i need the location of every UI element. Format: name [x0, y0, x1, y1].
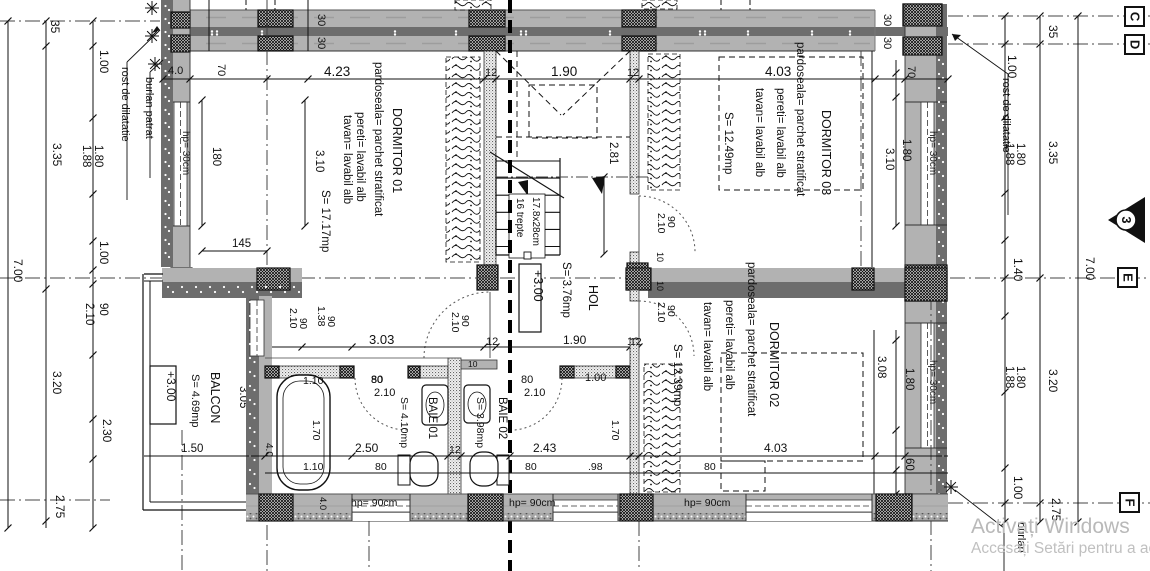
svg-text:10: 10 [468, 359, 478, 369]
svg-text:S= 12.39mp: S= 12.39mp [671, 344, 683, 406]
svg-text:E: E [1121, 273, 1136, 282]
svg-text:1.80: 1.80 [1014, 143, 1026, 165]
svg-text:1.70: 1.70 [310, 420, 322, 441]
columns (crosshatched) in top wall [175, 10, 190, 27]
svg-text:12: 12 [486, 336, 498, 348]
svg-text:80: 80 [375, 461, 387, 473]
svg-text:4.0: 4.0 [317, 497, 328, 510]
svg-text:2.81: 2.81 [607, 142, 619, 164]
column bottom-left of DORM01 [171, 268, 192, 290]
column bottom right [905, 494, 947, 519]
svg-text:hp= 30cm: hp= 30cm [180, 131, 191, 175]
svg-text:1.88: 1.88 [80, 145, 92, 167]
HOL labels [519, 264, 541, 332]
svg-text:3.20: 3.20 [50, 371, 64, 395]
svg-text:hp= 90cm: hp= 90cm [509, 497, 556, 509]
svg-text:16 trepte: 16 trepte [514, 198, 525, 238]
axis D right [948, 43, 1150, 45]
svg-text:2.75: 2.75 [53, 495, 67, 519]
svg-text:Activați Windows: Activați Windows [971, 515, 1130, 538]
svg-text:1.80: 1.80 [900, 139, 912, 161]
svg-text:90: 90 [325, 316, 336, 328]
dim 3.10 left room [304, 100, 306, 226]
svg-text:BAIE 01: BAIE 01 [426, 397, 438, 439]
svg-text:2.30: 2.30 [100, 419, 114, 443]
column top-right lower [903, 37, 942, 55]
svg-text:pardoseala= parchet stratifica: pardoseala= parchet stratificat [745, 262, 757, 417]
svg-text:3: 3 [1119, 217, 1133, 224]
right dim chain 3 7.00 [1077, 16, 1079, 522]
toilet BAIE02 [497, 455, 509, 485]
door arc right (mirror) [514, 378, 562, 430]
svg-text:2.10: 2.10 [374, 387, 395, 399]
radiator D02 [644, 364, 680, 492]
svg-text:1.00: 1.00 [1011, 476, 1025, 500]
column top-right upper [903, 4, 942, 26]
svg-text:DORMITOR 02: DORMITOR 02 [767, 322, 781, 407]
svg-text:7.00: 7.00 [11, 259, 25, 283]
svg-text:DORMITOR 03: DORMITOR 03 [819, 110, 833, 195]
column left end D02 wall [626, 268, 651, 290]
svg-text:BAIE 02: BAIE 02 [496, 397, 508, 439]
svg-text:30: 30 [315, 14, 327, 26]
axis C right [948, 15, 1150, 17]
svg-text:S= 3.98mp: S= 3.98mp [474, 397, 486, 448]
svg-text:1.70: 1.70 [609, 420, 621, 441]
column right mid [905, 265, 947, 301]
radiator D03 [648, 54, 680, 190]
radiator stubs above band [455, 0, 491, 10]
dashed furniture rect D03 [719, 57, 863, 190]
svg-text:2.10: 2.10 [655, 302, 667, 323]
svg-text:2.43: 2.43 [533, 441, 557, 455]
svg-text:1.00: 1.00 [97, 50, 111, 74]
svg-text:12: 12 [449, 444, 461, 456]
svg-text:1.90: 1.90 [551, 64, 577, 79]
svg-text:2.10: 2.10 [449, 312, 461, 333]
svg-text:70: 70 [215, 64, 227, 76]
bottom columns [259, 494, 293, 521]
svg-text:HOL: HOL [586, 285, 600, 311]
svg-text:tavan= lavabil alb: tavan= lavabil alb [753, 88, 765, 177]
svg-text:4.03: 4.03 [765, 64, 791, 79]
svg-text:4.23: 4.23 [324, 64, 350, 79]
svg-text:Accesați Setări pentru a act: Accesați Setări pentru a act [971, 540, 1150, 557]
svg-text:4.0: 4.0 [263, 443, 274, 457]
toilet BAIE01 [398, 455, 410, 485]
svg-text:3.20: 3.20 [1046, 369, 1060, 393]
axis C left stub [0, 20, 160, 22]
svg-text:80: 80 [704, 461, 716, 473]
svg-text:pereti= lavabil alb: pereti= lavabil alb [354, 112, 366, 202]
svg-text:1.90: 1.90 [563, 333, 587, 347]
svg-text:180: 180 [210, 147, 222, 166]
svg-text:35: 35 [48, 20, 62, 34]
dashed upper flight [496, 51, 561, 115]
dim 2.81 stairwell [603, 177, 605, 254]
left dim chain outer 7.00 [7, 21, 9, 528]
svg-text:F: F [1123, 499, 1138, 507]
svg-text:DORMITOR 01: DORMITOR 01 [390, 108, 404, 193]
stairwell right partition wall 12 [630, 51, 639, 194]
column at stair right wall bottom [627, 263, 648, 290]
axis F right [948, 502, 1150, 504]
top exterior wall band [163, 10, 875, 51]
svg-text:2.10: 2.10 [655, 213, 667, 234]
svg-text:S= 3.76mp: S= 3.76mp [560, 262, 572, 318]
left exterior wall [161, 0, 173, 267]
stair cut diagonal [490, 152, 564, 198]
mid horizontal wall left part [162, 268, 302, 282]
dim line mid [250, 346, 640, 348]
stair text 16 trepte [509, 194, 545, 258]
svg-text:rost de dilatatie: rost de dilatatie [1000, 78, 1012, 153]
axis F left stub [0, 499, 110, 501]
svg-text:C: C [1128, 12, 1143, 22]
column right wall at axis E [905, 268, 947, 301]
svg-text:3.08: 3.08 [875, 356, 887, 378]
dim 180/145 left [201, 100, 203, 226]
balcony labels [150, 366, 176, 424]
svg-text:3.03: 3.03 [369, 332, 394, 347]
axis E horizontal full width [0, 277, 1150, 279]
axis boxes C D E F [1125, 7, 1144, 26]
svg-text:S= 4.69mp: S= 4.69mp [189, 374, 201, 428]
svg-text:S= 17.17mp: S= 17.17mp [319, 190, 331, 252]
bottom windows [352, 500, 410, 512]
balcony outline [142, 274, 144, 510]
svg-text:1.88: 1.88 [1003, 366, 1015, 388]
left dim chain 3 [92, 21, 94, 528]
svg-text:pardoseala= parchet stratifica: pardoseala= parchet stratificat [794, 42, 806, 197]
right dim chain 1 [1004, 16, 1006, 522]
svg-text:3.10: 3.10 [883, 148, 895, 170]
svg-text:12: 12 [627, 67, 639, 79]
svg-text:1.80: 1.80 [903, 368, 915, 390]
svg-text:35: 35 [1046, 25, 1060, 39]
door D03 [639, 196, 695, 252]
bathtub [277, 375, 330, 490]
dashed furniture D02 [721, 353, 863, 461]
svg-text:pardoseala= parchet stratifica: pardoseala= parchet stratificat [372, 62, 384, 217]
svg-text:1.00: 1.00 [585, 372, 606, 384]
section marker 3 [1108, 197, 1145, 243]
svg-text:hp= 90cm: hp= 90cm [351, 497, 398, 509]
svg-text:hp= 30cm: hp= 30cm [927, 360, 938, 404]
svg-text:1.80: 1.80 [1014, 366, 1026, 388]
D02 left wall [630, 290, 639, 301]
svg-text:tavan= lavabil alb: tavan= lavabil alb [341, 115, 353, 204]
inner lines right shaft [860, 51, 862, 300]
svg-text:1.80: 1.80 [92, 145, 104, 167]
sink BAIE02 [464, 385, 490, 423]
svg-text:1.10: 1.10 [303, 461, 324, 473]
landing dash-dot [496, 176, 648, 178]
svg-text:80: 80 [521, 374, 533, 386]
mid horizontal wall right part [648, 268, 905, 282]
svg-text:12: 12 [630, 336, 642, 348]
svg-text:2.50: 2.50 [355, 441, 379, 455]
svg-text:1.00: 1.00 [97, 241, 111, 265]
svg-text:burlan patrat: burlan patrat [143, 77, 155, 139]
door arc bath1 [355, 378, 407, 430]
right dim chain 2 [1039, 16, 1041, 522]
svg-text:pereti= lavabil alb: pereti= lavabil alb [774, 88, 786, 178]
svg-text:1.50: 1.50 [181, 443, 203, 455]
svg-text:+3.00: +3.00 [531, 270, 545, 302]
svg-text:hp= 30cm: hp= 30cm [927, 131, 938, 175]
svg-text:70: 70 [905, 66, 917, 78]
stairwell left partition wall 12 [484, 51, 496, 265]
svg-text:+3.00: +3.00 [164, 371, 178, 402]
svg-text:pereti= lavabil alb: pereti= lavabil alb [723, 300, 735, 390]
door D02 [639, 301, 694, 356]
sink BAIE01 [422, 385, 448, 425]
heavy section dash line [508, 0, 512, 571]
bottom exterior wall [246, 494, 948, 513]
vertical axis x267 [266, 0, 268, 571]
svg-text:7.00: 7.00 [1083, 257, 1097, 281]
column at stair wall bottom [477, 265, 498, 290]
svg-text:12: 12 [485, 67, 497, 79]
wall right of BAIE02 (mirror) [560, 366, 630, 378]
svg-text:30: 30 [881, 37, 893, 49]
svg-text:80: 80 [525, 461, 537, 473]
door arc HOL->D01 [424, 292, 490, 358]
balcony door wall x246-272 [246, 296, 259, 521]
svg-text:4.0: 4.0 [168, 65, 183, 77]
svg-text:3.10: 3.10 [313, 150, 325, 172]
right exterior wall [905, 4, 947, 516]
svg-text:10: 10 [655, 252, 665, 262]
svg-text:30: 30 [881, 14, 893, 26]
dim line lower [144, 455, 948, 457]
svg-text:4.03: 4.03 [764, 441, 788, 455]
svg-text:1.40: 1.40 [1011, 258, 1025, 282]
svg-text:17.8x28cm: 17.8x28cm [530, 197, 541, 246]
svg-text:D: D [1128, 40, 1143, 49]
svg-text:90: 90 [297, 318, 308, 330]
svg-text:10: 10 [655, 281, 665, 291]
svg-text:BALCON: BALCON [208, 372, 222, 423]
svg-text:2.10: 2.10 [83, 303, 95, 325]
svg-text:30: 30 [315, 37, 327, 49]
svg-text:3.35: 3.35 [1046, 141, 1060, 165]
small wall under stairwell [451, 360, 497, 369]
svg-text:S= 4.10mp: S= 4.10mp [398, 397, 410, 448]
wall stubs above band [208, 0, 210, 51]
svg-text:145: 145 [232, 238, 251, 250]
svg-text:tavan= lavabil alb: tavan= lavabil alb [701, 302, 713, 391]
svg-text:80: 80 [371, 374, 383, 386]
svg-text:hp= 90cm: hp= 90cm [684, 497, 731, 509]
right dims 1.80/3.10/70 [895, 60, 897, 226]
divider wall BAIE1/2 [448, 358, 461, 494]
svg-text:3.35: 3.35 [50, 143, 64, 167]
radiator DORM01 [446, 57, 480, 262]
bath top wall [265, 366, 352, 378]
svg-text:S= 12.49mp: S= 12.49mp [722, 112, 734, 174]
svg-text:2.10: 2.10 [524, 387, 545, 399]
svg-text:90: 90 [97, 303, 109, 316]
svg-text:1.10: 1.10 [303, 375, 324, 387]
stairs [495, 158, 497, 255]
svg-text:60: 60 [903, 458, 915, 471]
vertical axis stubs below [181, 430, 183, 571]
svg-text:.98: .98 [588, 461, 603, 473]
left dim chain 2 [45, 21, 47, 528]
svg-text:rost de dilatatie: rost de dilatatie [119, 67, 131, 142]
D02 dims right [873, 330, 875, 500]
svg-text:1.00: 1.00 [1005, 55, 1019, 79]
dim line y473 [265, 472, 948, 474]
interior dim line upper [163, 78, 948, 80]
